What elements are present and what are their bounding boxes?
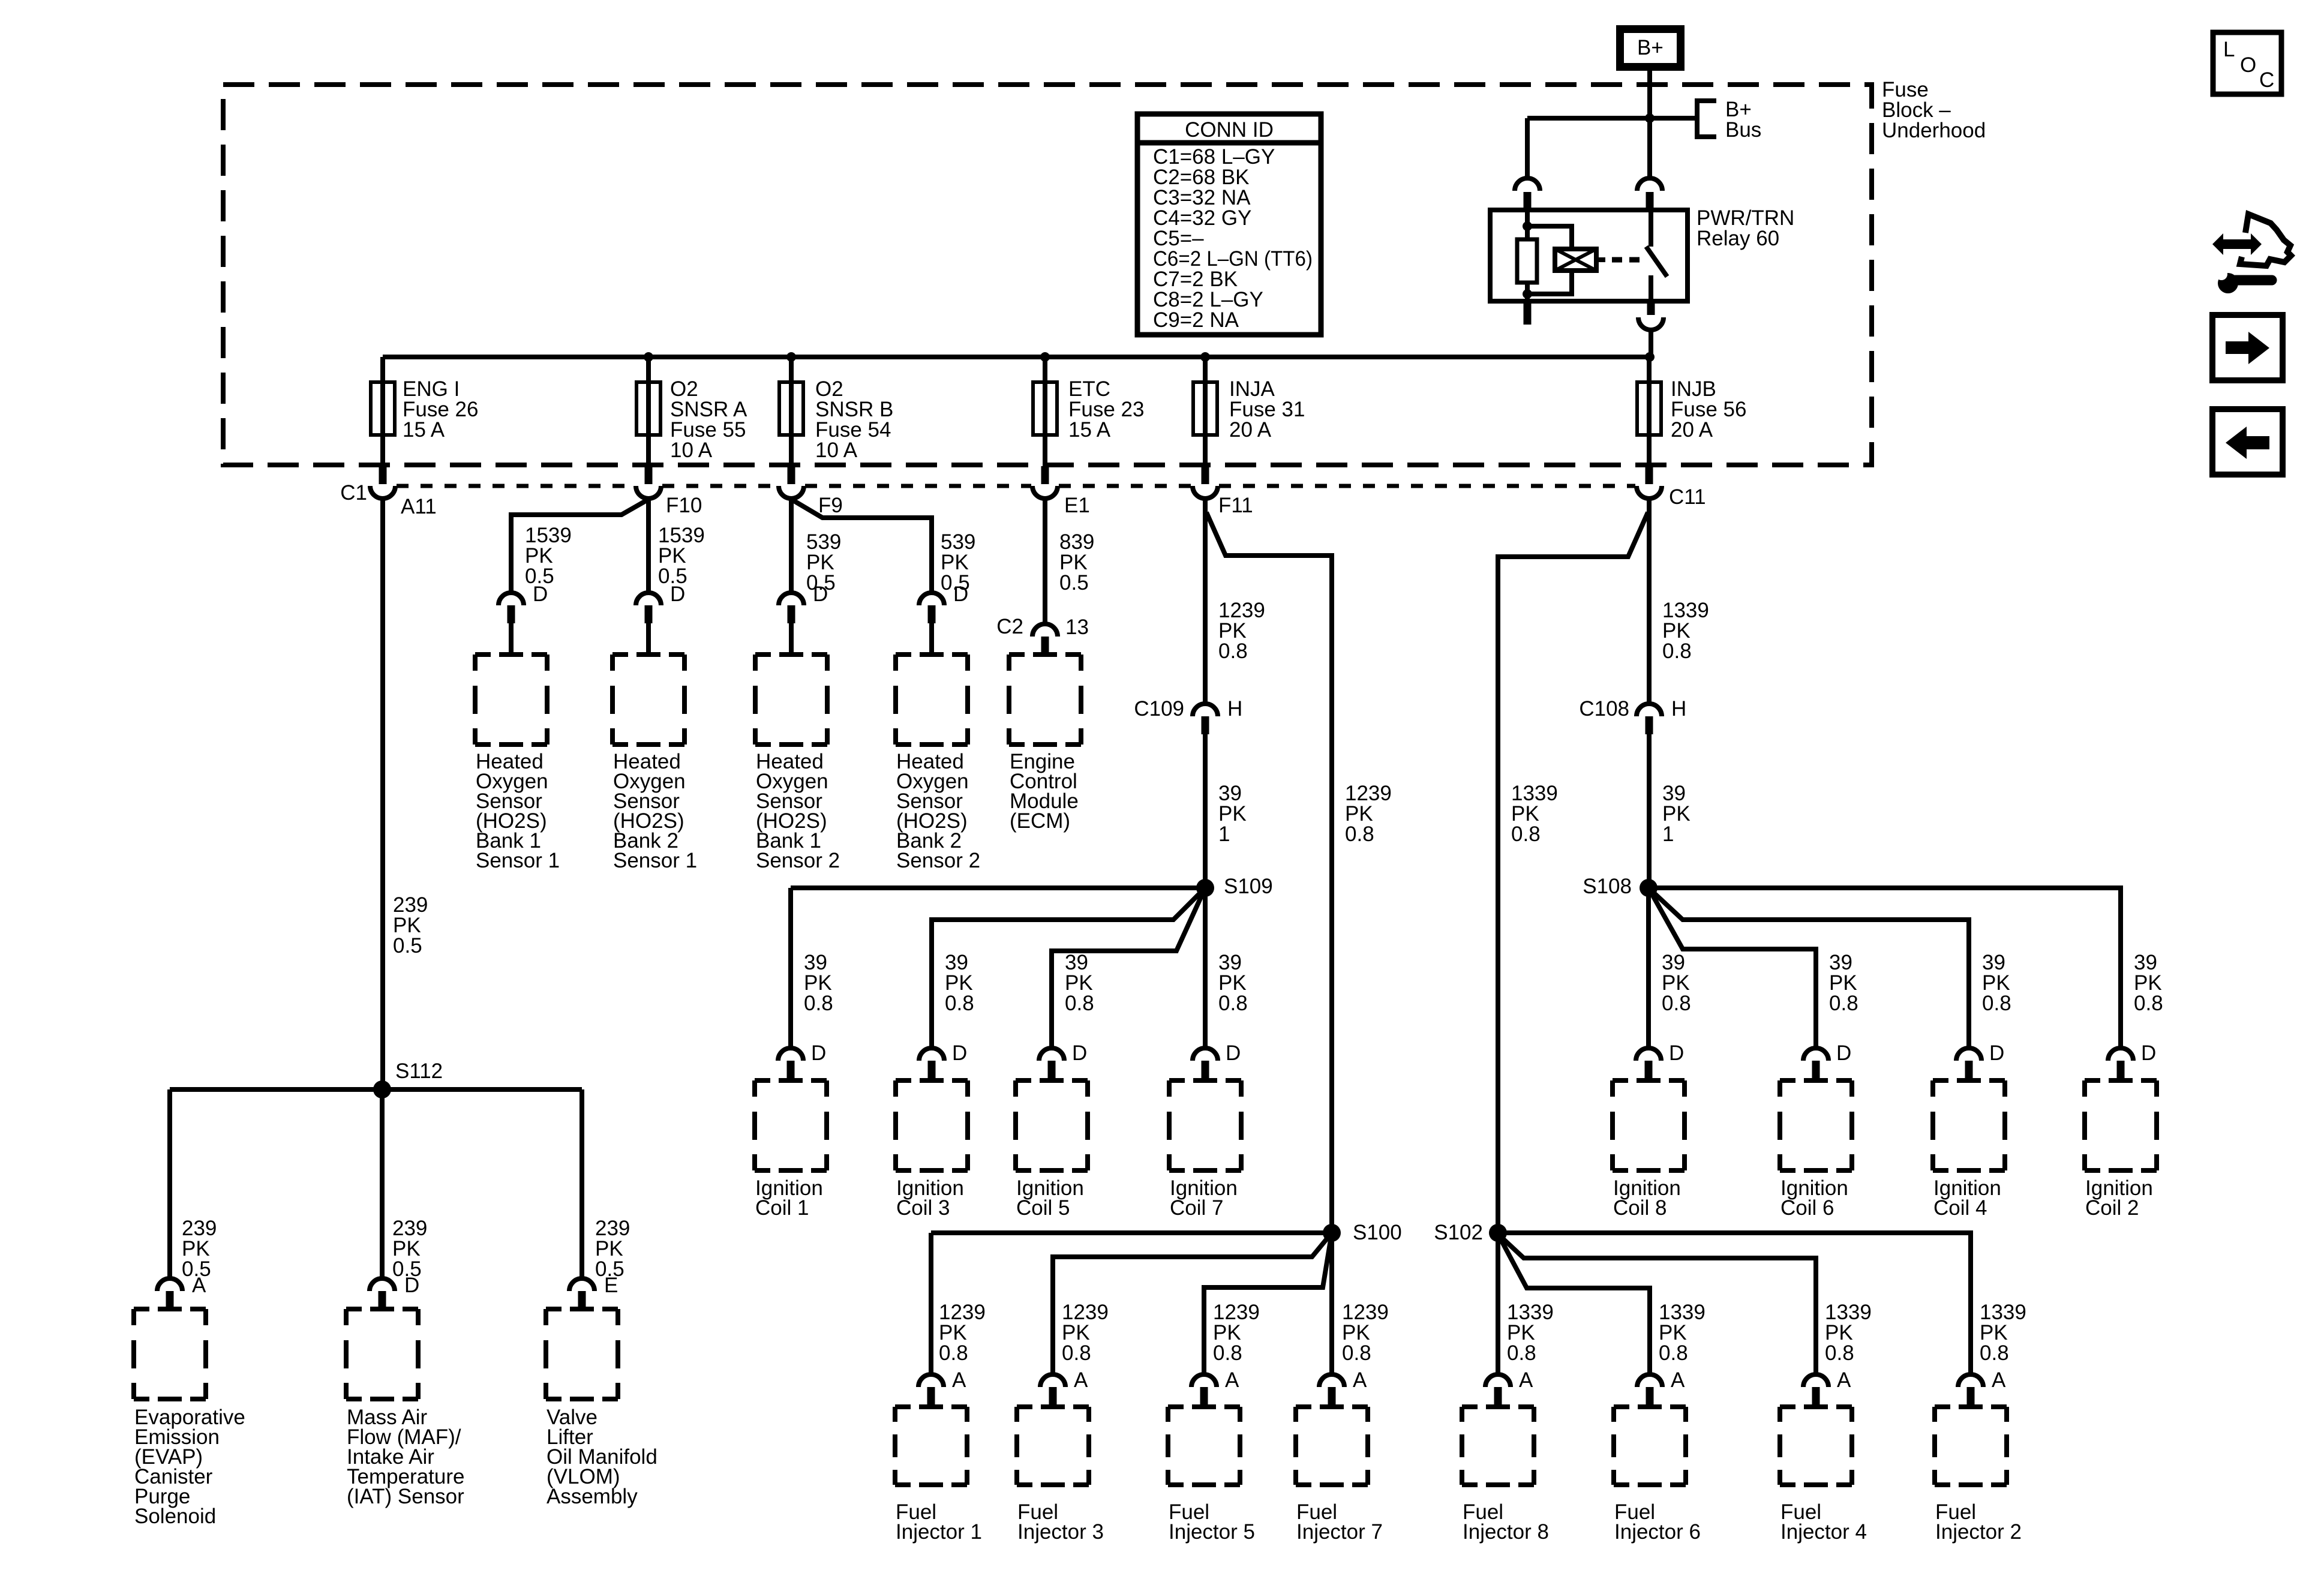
fuse Fuse 54 10 A bbox=[779, 382, 803, 435]
wire to VLOM assembly bbox=[580, 1089, 584, 1279]
connector pin A EVAP bbox=[157, 1278, 182, 1291]
wire to ignition Coil 6 bbox=[1649, 888, 1816, 1049]
relay PWR/TRN Relay 60 box bbox=[1490, 210, 1688, 301]
component Fuel Injector 2 bbox=[1935, 1407, 2007, 1485]
fuse Fuse 26 15 A bbox=[371, 382, 395, 435]
wire fuse column ETC bbox=[1043, 357, 1047, 465]
wire to relay pin 1 bbox=[1525, 118, 1530, 179]
fuse Fuse 23 15 A bbox=[1033, 382, 1057, 435]
connector pin D Coil 2 bbox=[2108, 1048, 2133, 1061]
connector pin D Coil 7 bbox=[1193, 1048, 1218, 1061]
svg-text:H: H bbox=[1227, 697, 1242, 721]
component HO2S Bank 1 Sensor 1 bbox=[475, 655, 547, 745]
wire to EVAP solenoid bbox=[167, 1089, 172, 1279]
wire pin to box bbox=[789, 623, 794, 655]
wire fuse column ENG I bbox=[380, 357, 385, 465]
svg-text:A: A bbox=[1519, 1368, 1533, 1392]
splice S100 bbox=[1323, 1224, 1341, 1242]
wire pin to box bbox=[646, 623, 651, 655]
svg-text:F11: F11 bbox=[1218, 494, 1253, 517]
LOC logo box bbox=[2213, 32, 2281, 94]
svg-text:H: H bbox=[1671, 697, 1686, 721]
connector pin D Coil 6 bbox=[1803, 1048, 1828, 1061]
connector arc relay output bbox=[1638, 317, 1664, 330]
connector pin A Injector 5 bbox=[1191, 1374, 1217, 1387]
connector pin A Injector 8 bbox=[1485, 1374, 1511, 1387]
B+ Bus terminal bracket bbox=[1697, 101, 1716, 137]
component Engine Control Module bbox=[1009, 655, 1081, 745]
B+ battery terminal bbox=[1620, 29, 1681, 67]
svg-text:B+: B+ bbox=[1637, 36, 1664, 59]
svg-text:A: A bbox=[1992, 1368, 2006, 1392]
svg-text:A: A bbox=[1225, 1368, 1239, 1392]
component Fuel Injector 5 bbox=[1168, 1407, 1240, 1485]
svg-text:D: D bbox=[1989, 1041, 2004, 1065]
connector A11 bbox=[379, 466, 387, 484]
connector F11 bbox=[1202, 466, 1209, 484]
wire relay output to bus bbox=[1649, 329, 1653, 357]
component HO2S Bank 2 Sensor 2 bbox=[896, 655, 968, 745]
wire C11 split to S102 feeder bbox=[1498, 512, 1648, 1233]
component Ignition Coil 3 bbox=[896, 1080, 968, 1170]
connector pin E VLOM bbox=[569, 1278, 594, 1291]
relay coil resistor bbox=[1525, 210, 1530, 239]
svg-text:D: D bbox=[813, 583, 828, 606]
wire C108 to S108 bbox=[1647, 734, 1652, 888]
svg-text:D: D bbox=[2141, 1041, 2156, 1065]
svg-text:C109: C109 bbox=[1134, 697, 1184, 721]
svg-text:F10: F10 bbox=[666, 494, 702, 517]
svg-text:D: D bbox=[533, 583, 548, 606]
splice S108 bbox=[1640, 879, 1658, 897]
connector pin A Injector 6 bbox=[1637, 1374, 1662, 1387]
connector pin D HO2S B1S2 bbox=[779, 593, 804, 605]
svg-text:A: A bbox=[1353, 1368, 1367, 1392]
wire F11 to C109 bbox=[1203, 499, 1208, 704]
wire to fuel Injector 7 bbox=[1329, 1239, 1334, 1375]
svg-text:E: E bbox=[604, 1274, 618, 1297]
hotlink icon outline bbox=[2240, 214, 2291, 266]
connector pin D Coil 1 bbox=[778, 1048, 803, 1061]
component Ignition Coil 2 bbox=[2085, 1080, 2157, 1170]
svg-text:D: D bbox=[1072, 1041, 1087, 1065]
svg-text:D: D bbox=[811, 1041, 826, 1065]
svg-text:D: D bbox=[953, 583, 968, 606]
wire relay feed horizontal bbox=[1527, 116, 1695, 121]
wire C109 to S109 bbox=[1203, 734, 1208, 888]
wire F11 split to S100 feeder bbox=[1206, 512, 1332, 1233]
connector pin D HO2S B1S1 bbox=[499, 593, 524, 605]
connector E1 bbox=[1041, 466, 1049, 484]
wire to ignition Coil 5 bbox=[1052, 888, 1205, 1049]
back arrow box bbox=[2212, 409, 2283, 475]
wire main bus bbox=[383, 355, 1650, 359]
svg-text:A: A bbox=[1837, 1368, 1851, 1392]
svg-text:D: D bbox=[1836, 1041, 1851, 1065]
connector F10 bbox=[645, 466, 653, 484]
wire S112 horizontal bbox=[170, 1087, 582, 1092]
hotlink icon wrench bbox=[2218, 273, 2238, 293]
svg-text:C1: C1 bbox=[340, 481, 367, 505]
wire to relay pin 2 bbox=[1647, 118, 1652, 179]
wire fuse column INJB bbox=[1647, 357, 1652, 465]
svg-text:S102: S102 bbox=[1434, 1221, 1483, 1244]
splice S112 bbox=[373, 1080, 391, 1098]
splice S109 bbox=[1196, 879, 1214, 897]
fuse Fuse 55 10 A bbox=[636, 382, 660, 435]
wire to ignition Coil 2 bbox=[1649, 888, 2121, 1049]
fuse Fuse 31 20 A bbox=[1193, 382, 1217, 435]
relay coil lower pin stub bbox=[1524, 301, 1532, 325]
wire to fuel Injector 8 bbox=[1496, 1239, 1500, 1375]
svg-text:O: O bbox=[2240, 53, 2256, 77]
wire F10 straight to HO2S B2S1 bbox=[646, 499, 651, 591]
wire pin to box bbox=[929, 623, 934, 655]
relay switch bbox=[1649, 210, 1653, 247]
wire pin to box bbox=[509, 623, 514, 655]
connector pin D HO2S B2S1 bbox=[636, 593, 661, 605]
node bus junction x=1081 bbox=[644, 352, 653, 362]
svg-text:EngineControlModule(ECM): EngineControlModule(ECM) bbox=[1010, 750, 1079, 833]
wire to ignition Coil 7 bbox=[1203, 894, 1208, 1049]
wire to fuel Injector 1 bbox=[931, 1233, 1332, 1375]
wire to ignition Coil 8 bbox=[1646, 894, 1651, 1049]
node bus junction x=1742 bbox=[1040, 352, 1050, 362]
svg-text:S112: S112 bbox=[395, 1059, 443, 1083]
wire 239 PK from A11 to S112 bbox=[380, 499, 385, 1089]
component HO2S Bank 1 Sensor 2 bbox=[755, 655, 827, 745]
connector pin A Injector 3 bbox=[1040, 1374, 1065, 1387]
connector arc relay pin 1 bbox=[1515, 178, 1540, 191]
svg-text:D: D bbox=[1669, 1041, 1684, 1065]
connector arc relay pin 2 bbox=[1637, 178, 1662, 191]
relay solenoid winding box bbox=[1527, 226, 1572, 249]
component Fuel Injector 4 bbox=[1780, 1407, 1852, 1485]
connector pin D Coil 3 bbox=[919, 1048, 944, 1061]
wire to fuel Injector 4 bbox=[1498, 1234, 1816, 1375]
fuse Fuse 56 20 A bbox=[1637, 382, 1661, 435]
wire to fuel Injector 5 bbox=[1204, 1233, 1332, 1375]
node bus junction x=1319 bbox=[786, 352, 796, 362]
node relay coil top bbox=[1523, 221, 1532, 231]
node bus junction x=2750 bbox=[1645, 352, 1655, 362]
svg-text:C108: C108 bbox=[1579, 697, 1629, 721]
node bus junction x=2009 bbox=[1200, 352, 1210, 362]
svg-text:F9: F9 bbox=[818, 494, 843, 517]
connector pin A Injector 1 bbox=[918, 1374, 944, 1387]
connector position dotted line bbox=[397, 484, 635, 488]
wire fuse column O2 bbox=[646, 357, 651, 465]
svg-text:D: D bbox=[952, 1041, 967, 1065]
svg-text:A: A bbox=[1074, 1368, 1088, 1392]
component Ignition Coil 6 bbox=[1780, 1080, 1852, 1170]
component Ignition Coil 5 bbox=[1016, 1080, 1088, 1170]
wire E1 to ECM bbox=[1043, 499, 1047, 625]
relay actuator dashed link bbox=[1596, 257, 1605, 262]
component MAF/IAT sensor bbox=[346, 1309, 418, 1399]
connector C11 bbox=[1646, 466, 1653, 484]
svg-text:A: A bbox=[192, 1274, 206, 1297]
node B+ feed junction bbox=[1645, 113, 1655, 123]
svg-text:C: C bbox=[2259, 68, 2274, 92]
svg-text:A11: A11 bbox=[401, 495, 437, 518]
wire F10 split to HO2S B1S1 bbox=[511, 500, 647, 591]
component VLOM assembly bbox=[546, 1309, 618, 1399]
splice S102 bbox=[1489, 1224, 1507, 1242]
component Fuel Injector 1 bbox=[895, 1407, 967, 1485]
svg-text:S108: S108 bbox=[1583, 875, 1632, 898]
wire fuse column O2 bbox=[789, 357, 794, 465]
wire to MAF/IAT sensor bbox=[380, 1089, 385, 1279]
svg-text:CONN ID: CONN ID bbox=[1185, 118, 1274, 142]
svg-text:D: D bbox=[404, 1274, 419, 1297]
wire C11 to C108 bbox=[1647, 499, 1652, 704]
CONN ID table bbox=[1137, 114, 1321, 335]
svg-text:13: 13 bbox=[1065, 616, 1089, 639]
connector pin A Injector 7 bbox=[1319, 1374, 1344, 1387]
connector pin D MAF bbox=[370, 1278, 395, 1291]
connector F9 bbox=[788, 466, 795, 484]
component Fuel Injector 8 bbox=[1462, 1407, 1534, 1485]
wire F9 split to HO2S B2S2 bbox=[793, 500, 932, 591]
component Fuel Injector 3 bbox=[1017, 1407, 1089, 1485]
connector pin D Coil 8 bbox=[1636, 1048, 1661, 1061]
wire B+ to bus junction bbox=[1647, 71, 1652, 118]
svg-text:L: L bbox=[2223, 38, 2235, 61]
component HO2S Bank 2 Sensor 1 bbox=[612, 655, 684, 745]
svg-text:A: A bbox=[952, 1368, 966, 1392]
component Ignition Coil 7 bbox=[1169, 1080, 1241, 1170]
hotlink icon double arrow bbox=[2212, 233, 2262, 255]
wire F9 straight to HO2S B1S2 bbox=[789, 499, 794, 591]
connector pin D HO2S B2S2 bbox=[919, 593, 944, 605]
component Fuel Injector 7 bbox=[1296, 1407, 1368, 1485]
forward arrow box bbox=[2212, 315, 2283, 380]
node relay coil bottom bbox=[1523, 289, 1532, 299]
svg-text:S109: S109 bbox=[1224, 875, 1273, 898]
component Ignition Coil 4 bbox=[1933, 1080, 2005, 1170]
component Ignition Coil 1 bbox=[755, 1080, 827, 1170]
svg-text:D: D bbox=[670, 583, 685, 606]
wire to ignition Coil 3 bbox=[932, 888, 1205, 1049]
svg-text:E1: E1 bbox=[1064, 494, 1090, 517]
svg-text:C11: C11 bbox=[1669, 485, 1706, 509]
wire to ignition Coil 4 bbox=[1649, 888, 1969, 1049]
wire to ignition Coil 1 bbox=[791, 888, 1205, 1049]
wire fuse column INJA bbox=[1203, 357, 1208, 465]
connector pin A Injector 2 bbox=[1958, 1374, 1983, 1387]
svg-text:D: D bbox=[1226, 1041, 1241, 1065]
svg-text:C2: C2 bbox=[996, 615, 1023, 638]
wire to fuel Injector 2 bbox=[1498, 1233, 1971, 1375]
component Fuel Injector 6 bbox=[1614, 1407, 1686, 1485]
svg-text:A: A bbox=[1671, 1368, 1685, 1392]
component Ignition Coil 8 bbox=[1613, 1080, 1685, 1170]
wire to fuel Injector 3 bbox=[1053, 1233, 1332, 1375]
svg-text:S100: S100 bbox=[1353, 1221, 1402, 1244]
relay output pin bbox=[1647, 301, 1655, 315]
component EVAP canister purge solenoid bbox=[134, 1309, 206, 1399]
connector pin A Injector 4 bbox=[1803, 1374, 1828, 1387]
fuse block underhood dashed box bbox=[223, 85, 1872, 465]
wire to fuel Injector 6 bbox=[1498, 1234, 1650, 1375]
connector pin D Coil 4 bbox=[1956, 1048, 1981, 1061]
connector pin D Coil 5 bbox=[1039, 1048, 1064, 1061]
